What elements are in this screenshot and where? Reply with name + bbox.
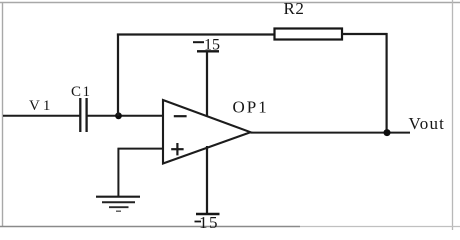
wire: feedback rail to R2 left — [117, 33, 275, 35]
wire: op-amp output to Vout terminal — [251, 132, 411, 134]
svg-text:Vout: Vout — [409, 114, 446, 133]
svg-text:V1: V1 — [29, 98, 53, 114]
wire: down from non-inverting input to ground — [117, 148, 119, 197]
node A: summing junction dot — [115, 112, 122, 119]
op-amp OP1 triangle — [163, 98, 269, 164]
capacitor C1 — [71, 84, 92, 132]
power terminal -15 (top supply pin) — [193, 37, 220, 118]
wire: ground rail to op-amp non-inverting input — [118, 148, 164, 150]
wire: right vertical down to output node — [386, 33, 388, 133]
power terminal -15 (bottom supply pin) — [195, 146, 220, 232]
wire: C1 right plate to op-amp inverting input — [87, 115, 163, 117]
wire: V1 input to C1 left plate — [3, 115, 80, 117]
svg-text:OP1: OP1 — [233, 98, 269, 117]
svg-text:R2: R2 — [284, 0, 305, 18]
wire: R2 right to corner — [342, 33, 388, 35]
resistor R2 — [275, 0, 343, 40]
node Vout: output junction dot — [384, 129, 391, 136]
svg-text:15: 15 — [199, 213, 219, 230]
ground — [96, 197, 140, 212]
wire: node A up to feedback rail — [117, 34, 119, 117]
svg-text:C1: C1 — [71, 84, 92, 100]
